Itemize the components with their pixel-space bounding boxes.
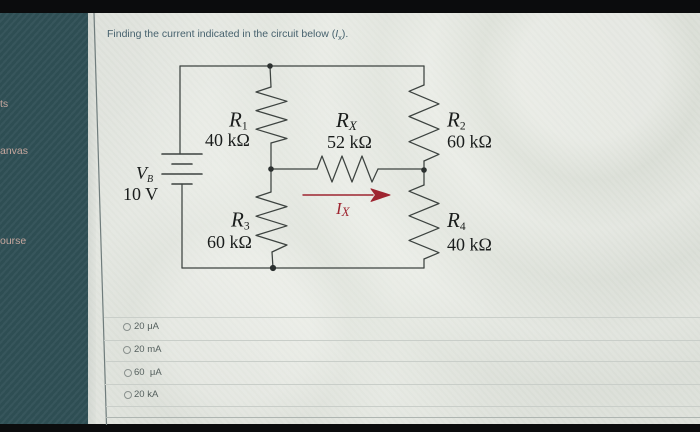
radio option 2: [123, 346, 131, 354]
sidebar text anvas: [0, 145, 28, 157]
wire left upper: [179, 66, 181, 154]
options separator 5: [106, 406, 700, 407]
wire column A bottom: [272, 252, 273, 268]
wire column B bottom: [423, 259, 425, 268]
wire middle right: [378, 168, 424, 170]
options separator 2: [104, 340, 700, 341]
resistor R3: [256, 192, 287, 252]
question text: [107, 28, 348, 42]
sidebar text ts: [0, 98, 8, 110]
node A middle-left junction: [268, 166, 274, 172]
wire left lower: [181, 184, 183, 268]
radio option 4: [124, 391, 132, 399]
labels: [123, 108, 492, 255]
resistor RX: [317, 156, 378, 182]
svg-text:60 kΩ: 60 kΩ: [207, 232, 252, 252]
svg-text:52 kΩ: 52 kΩ: [327, 132, 372, 152]
node B middle-right junction: [421, 167, 427, 173]
card bottom border: [106, 417, 700, 418]
radio option 1: [123, 323, 131, 331]
wire column A top: [270, 66, 271, 87]
battery VB plate long: [162, 173, 202, 175]
svg-text:10 V: 10 V: [123, 184, 158, 204]
svg-text:R4: R4: [446, 208, 466, 233]
sidebar text ourse: [0, 235, 26, 247]
wire top: [180, 65, 424, 67]
battery VB plate short bottom: [172, 183, 192, 185]
node top junction: [267, 63, 273, 69]
svg-text:VB: VB: [136, 163, 153, 185]
current arrow Ix: [303, 189, 390, 202]
resistor R2: [409, 85, 439, 161]
svg-text:R1: R1: [228, 108, 248, 133]
svg-text:R3: R3: [230, 208, 250, 233]
wire bottom: [182, 267, 424, 269]
radio option 3: [124, 369, 132, 377]
battery VB plate short: [172, 163, 192, 165]
resistor R1: [256, 87, 287, 143]
battery VB plate long top: [162, 153, 202, 155]
top black bar: [0, 0, 700, 13]
left sidebar (dark teal): [0, 13, 88, 424]
svg-text:60 kΩ: 60 kΩ: [447, 132, 492, 152]
wire column B top: [423, 66, 425, 85]
options separator 1: [104, 317, 700, 318]
options separator 4: [105, 384, 700, 385]
svg-text:RX: RX: [335, 108, 358, 133]
svg-text:IX: IX: [335, 199, 351, 219]
gutter shading: [88, 13, 96, 424]
svg-text:R2: R2: [446, 108, 466, 133]
resistor R4: [409, 185, 439, 259]
wire column A middle: [270, 143, 272, 192]
options separator 3: [105, 361, 700, 362]
wire column B middle: [423, 161, 425, 185]
circuit schematic: [110, 50, 510, 290]
svg-text:40 kΩ: 40 kΩ: [205, 130, 250, 150]
node bottom junction: [270, 265, 276, 271]
wire middle left: [271, 168, 317, 170]
bottom black bar: [0, 424, 700, 432]
svg-text:40 kΩ: 40 kΩ: [447, 235, 492, 255]
